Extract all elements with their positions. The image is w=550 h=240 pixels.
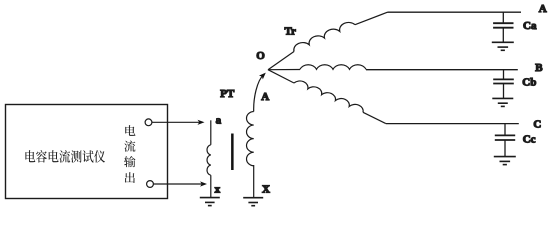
Tr winding phase C xyxy=(268,70,386,124)
capacitor Cb xyxy=(493,70,514,99)
Tr winding phase A xyxy=(268,12,388,69)
terminal x (bottom output) xyxy=(147,181,154,188)
svg-text:x: x xyxy=(215,183,221,195)
svg-text:PT: PT xyxy=(220,88,235,100)
capacitor Ca xyxy=(493,12,513,42)
capacitor Cc xyxy=(495,124,515,157)
svg-text:Cc: Cc xyxy=(523,134,536,146)
PT secondary winding xyxy=(247,73,266,198)
svg-text:C: C xyxy=(533,119,541,131)
svg-text:O: O xyxy=(256,50,265,62)
wire: top output to PT primary a xyxy=(152,121,200,123)
wire: phase C bus xyxy=(386,123,519,125)
svg-text:Tr: Tr xyxy=(285,25,297,37)
ground (Cc) xyxy=(494,157,516,165)
PT primary winding xyxy=(207,120,211,197)
svg-text:Cb: Cb xyxy=(522,77,536,89)
ground (PT secondary) xyxy=(243,198,263,206)
svg-text:A: A xyxy=(261,91,269,103)
Tr winding phase B xyxy=(268,65,366,70)
svg-text:A: A xyxy=(539,3,547,15)
wire: bottom output to PT primary x xyxy=(154,183,203,185)
ground (Ca) xyxy=(492,42,514,50)
instrument box: capacitance current tester xyxy=(6,105,168,199)
label 电流输出 (current output) xyxy=(124,125,135,183)
transformer core xyxy=(231,134,234,171)
wire: phase B bus xyxy=(366,69,518,71)
ground (PT primary) xyxy=(200,198,220,206)
svg-text:Ca: Ca xyxy=(523,20,537,32)
svg-text:a: a xyxy=(216,114,222,126)
label 电容电流测试仪 xyxy=(25,150,105,163)
ground (Cb) xyxy=(492,98,513,106)
wire: phase A bus xyxy=(388,11,522,13)
svg-text:B: B xyxy=(535,62,543,74)
terminal a (top output) xyxy=(145,119,152,126)
svg-text:X: X xyxy=(262,183,270,195)
